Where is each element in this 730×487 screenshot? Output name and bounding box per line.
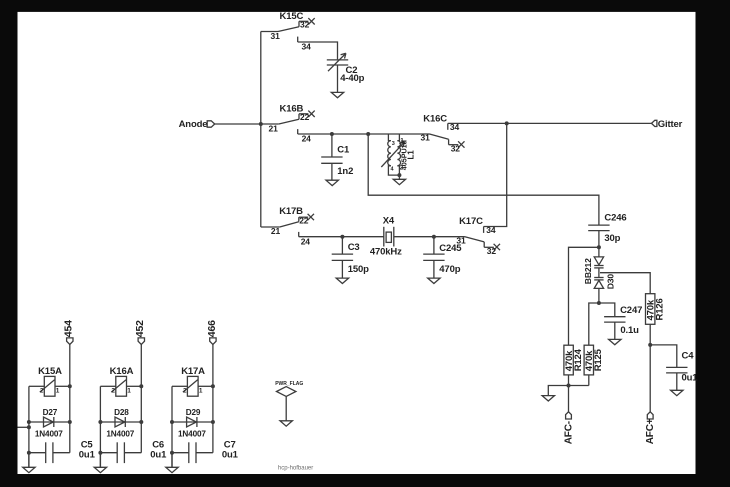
wire varicap node to R125 branch xyxy=(589,303,599,345)
svg-text:1: 1 xyxy=(56,388,60,395)
wire diode row (D27) xyxy=(29,421,70,423)
port 454 connector xyxy=(67,338,73,345)
wire C3 to ground xyxy=(341,260,343,278)
wire R125 bottom lead xyxy=(588,375,590,386)
junction - D27 right xyxy=(68,420,72,424)
svg-text:C3: C3 xyxy=(348,242,360,253)
power flag PWR_FLAG xyxy=(277,387,296,421)
relay coil K17A xyxy=(172,376,213,396)
svg-text:31: 31 xyxy=(456,235,466,245)
capacitor C3 xyxy=(332,253,353,255)
wire L1 to ground xyxy=(398,175,400,179)
relay contact K17B xyxy=(261,214,314,237)
ground (K15A block) xyxy=(23,467,35,472)
svg-text:31: 31 xyxy=(271,31,281,41)
wire diode row (D28) xyxy=(100,421,141,423)
capacitor C2 (trimmer 4-40p) xyxy=(327,53,348,71)
svg-text:K15A: K15A xyxy=(38,366,62,377)
port AFC- connector xyxy=(566,412,572,419)
svg-text:AFC-: AFC- xyxy=(564,421,575,444)
svg-text:1: 1 xyxy=(199,388,203,395)
wire K15A to ground xyxy=(28,453,30,468)
port AFC+ connector xyxy=(647,412,653,419)
wire K16C pin34 to Gitter xyxy=(448,122,652,124)
wire AFC- lead xyxy=(568,386,570,412)
svg-text:466: 466 xyxy=(206,320,218,337)
svg-text:150p: 150p xyxy=(348,264,369,275)
wire AFC+ lead xyxy=(649,345,651,412)
junction - L1 / bottom rail tap xyxy=(366,132,370,136)
relay contact K16B xyxy=(261,111,315,134)
svg-text:24: 24 xyxy=(301,236,311,246)
diode D28 (1N4007) xyxy=(115,417,125,427)
svg-text:BB212: BB212 xyxy=(583,258,593,284)
svg-text:32: 32 xyxy=(451,143,461,153)
crystal X4 xyxy=(384,227,394,247)
svg-text:2: 2 xyxy=(40,388,44,395)
ground (K17A block) xyxy=(166,467,178,472)
junction - D29 right xyxy=(211,420,215,424)
junction - varicap low node xyxy=(597,301,601,305)
relay contact K17C xyxy=(465,227,500,251)
svg-text:AFC+: AFC+ xyxy=(645,418,656,444)
wire 454 to coil xyxy=(69,344,71,452)
wire stub to sheet edge xyxy=(18,426,29,428)
svg-text:C246: C246 xyxy=(604,213,626,224)
svg-text:R124: R124 xyxy=(573,348,584,371)
wire R126 bottom lead xyxy=(649,324,651,345)
svg-text:Anode: Anode xyxy=(179,119,208,130)
svg-text:C247: C247 xyxy=(620,305,642,316)
capacitor C247 xyxy=(604,316,625,318)
ground (AFC- branch) xyxy=(542,396,554,401)
svg-text:D29: D29 xyxy=(186,408,201,417)
svg-text:K17A: K17A xyxy=(181,366,205,377)
junction - edge stub xyxy=(27,425,31,429)
svg-text:1n2: 1n2 xyxy=(337,166,353,177)
junction - K15A coil pin1 xyxy=(68,384,72,388)
svg-text:470kHz: 470kHz xyxy=(370,247,402,258)
svg-text:0u1: 0u1 xyxy=(682,372,699,383)
svg-text:0u1: 0u1 xyxy=(222,450,239,461)
junction - C6 left xyxy=(98,451,102,455)
svg-text:470p: 470p xyxy=(439,264,460,275)
svg-text:454: 454 xyxy=(63,320,75,337)
svg-text:1N4007: 1N4007 xyxy=(178,429,206,438)
junction - D29 left xyxy=(170,420,174,424)
svg-text:1N4007: 1N4007 xyxy=(35,429,63,438)
junction - AFC+ node xyxy=(648,343,652,347)
wire K17B pin24 row (to C3, X4, C245, K17C) xyxy=(299,236,384,238)
wire K16A to ground xyxy=(99,453,101,468)
svg-text:0u1: 0u1 xyxy=(79,450,96,461)
wire varicap centre tap to R126 xyxy=(600,273,650,294)
wire Gitter junction down to K17C pin34 xyxy=(484,123,507,226)
ground (C2) xyxy=(331,92,343,97)
ground (C1) xyxy=(326,180,338,185)
capacitor C6 xyxy=(100,442,141,463)
svg-text:34: 34 xyxy=(486,225,496,235)
relay coil K15A xyxy=(29,376,70,396)
svg-text:D28: D28 xyxy=(114,408,129,417)
svg-text:K16C: K16C xyxy=(423,113,447,124)
svg-text:24: 24 xyxy=(302,134,312,144)
wire K17A to ground xyxy=(171,453,173,468)
wire R124 bottom lead xyxy=(568,375,570,386)
wire AFC- node row xyxy=(548,386,589,396)
capacitor C7 xyxy=(172,442,213,463)
wire K16A left branch xyxy=(99,386,101,467)
svg-text:Gitter: Gitter xyxy=(658,119,683,130)
junction - D28 right xyxy=(139,420,143,424)
svg-text:K17C: K17C xyxy=(459,216,483,227)
wire C245 top lead xyxy=(433,237,435,254)
svg-text:2: 2 xyxy=(111,388,115,395)
junction - C245 tap xyxy=(432,235,436,239)
wire - vertical Anode bus (K15C pin31 to K17B pin21) xyxy=(260,32,262,228)
wire C1 to ground xyxy=(331,163,333,180)
wire C1 top lead xyxy=(331,134,333,157)
svg-text:4-40p: 4-40p xyxy=(340,73,364,84)
junction - D28 left xyxy=(98,420,102,424)
junction - D27 left xyxy=(27,420,31,424)
svg-text:R126: R126 xyxy=(655,298,666,320)
wire X4 to C245 row xyxy=(394,236,465,238)
svg-text:X4: X4 xyxy=(383,216,395,227)
wire Anode to bus xyxy=(215,123,261,125)
wire varicap node to R124 branch xyxy=(569,247,599,345)
relay coil K16A xyxy=(100,376,141,396)
wire C2 to ground xyxy=(337,65,339,92)
diode D30 (BB212 dual varicap) xyxy=(594,257,603,303)
svg-text:32: 32 xyxy=(487,246,497,256)
svg-text:31: 31 xyxy=(421,132,431,142)
ground (K16A block) xyxy=(94,467,106,472)
junction - L1 bottom xyxy=(397,173,401,177)
svg-text:1N4007: 1N4007 xyxy=(106,429,134,438)
svg-text:452: 452 xyxy=(134,320,146,337)
svg-text:2: 2 xyxy=(183,388,187,395)
inductor L1 (adjustable transformer) xyxy=(381,134,404,175)
svg-text:D30: D30 xyxy=(606,274,616,290)
junction - C5 left xyxy=(27,451,31,455)
resistor R126 xyxy=(646,294,655,325)
svg-text:PWR_FLAG: PWR_FLAG xyxy=(275,381,303,387)
wire K16B pin24 row (to C1, L1, K16C) xyxy=(298,133,430,135)
wire K17A left branch xyxy=(171,386,173,467)
resistor R124 xyxy=(564,345,573,375)
wire 466 to coil xyxy=(212,344,214,452)
relay contact K15C xyxy=(261,18,315,42)
wire C245 to ground xyxy=(433,260,435,278)
ground (C247) xyxy=(609,339,621,344)
port Gitter connector xyxy=(652,120,657,126)
resistor R125 xyxy=(584,345,593,375)
port 466 connector xyxy=(210,338,216,345)
svg-text:D27: D27 xyxy=(43,408,58,417)
wire K15A left branch xyxy=(28,386,30,467)
diode D27 (1N4007) xyxy=(44,417,54,427)
svg-text:C1: C1 xyxy=(337,145,350,156)
ground (L1) xyxy=(393,179,405,184)
ground (C4) xyxy=(671,390,683,395)
svg-text:21: 21 xyxy=(269,124,279,134)
junction - C7 left xyxy=(170,451,174,455)
wire K15C pin34 to C2 xyxy=(298,42,338,59)
svg-text:22: 22 xyxy=(300,112,310,122)
ground (PWR_FLAG) xyxy=(280,421,292,426)
wire C246 bottom lead xyxy=(598,231,600,257)
svg-text:34: 34 xyxy=(302,41,312,51)
svg-text:3: 3 xyxy=(392,141,395,147)
ground (C245) xyxy=(428,278,440,283)
svg-text:C4: C4 xyxy=(682,351,695,362)
svg-text:32: 32 xyxy=(300,19,310,29)
port 452 connector xyxy=(138,338,144,345)
junction - K17A coil pin1 xyxy=(211,384,215,388)
wire C4 to ground xyxy=(676,373,678,390)
capacitor C245 xyxy=(423,253,444,255)
capacitor C1 xyxy=(321,156,342,158)
svg-text:0u1: 0u1 xyxy=(150,450,167,461)
junction - Anode bus xyxy=(259,122,263,126)
svg-text:22: 22 xyxy=(299,215,309,225)
junction - C3 tap xyxy=(340,235,344,239)
svg-text:30p: 30p xyxy=(604,233,620,244)
junction - Gitter / K17C branch xyxy=(505,121,509,125)
svg-text:1: 1 xyxy=(127,388,131,395)
wire AFC+ node to C4 xyxy=(650,345,677,368)
capacitor C4 xyxy=(666,366,687,368)
svg-text:0.1u: 0.1u xyxy=(620,325,639,336)
relay contact K16C xyxy=(430,123,465,147)
capacitor C5 xyxy=(29,442,70,463)
svg-text:21: 21 xyxy=(271,226,281,236)
diode D29 (1N4007) xyxy=(187,417,197,427)
wire bottom rail (L1 node to C246) xyxy=(368,134,599,225)
svg-text:K16A: K16A xyxy=(110,366,134,377)
capacitor C246 xyxy=(588,224,609,226)
junction - C1 tap xyxy=(330,132,334,136)
wire C247 to ground xyxy=(614,322,616,339)
wire diode row (D29) xyxy=(172,421,213,423)
junction - AFC- node xyxy=(567,384,571,388)
svg-text:R125: R125 xyxy=(593,348,604,371)
svg-text:L1: L1 xyxy=(407,150,416,160)
ground (C3) xyxy=(336,278,348,283)
wire C3 top lead xyxy=(341,237,343,254)
wire 452 to coil xyxy=(140,344,142,452)
svg-text:hcp-hofbauer: hcp-hofbauer xyxy=(278,466,313,472)
junction - C246 / varicap node xyxy=(597,245,601,249)
port Anode connector xyxy=(207,121,215,127)
wire varicap node to C247 xyxy=(599,303,615,317)
junction - K16A coil pin1 xyxy=(139,384,143,388)
